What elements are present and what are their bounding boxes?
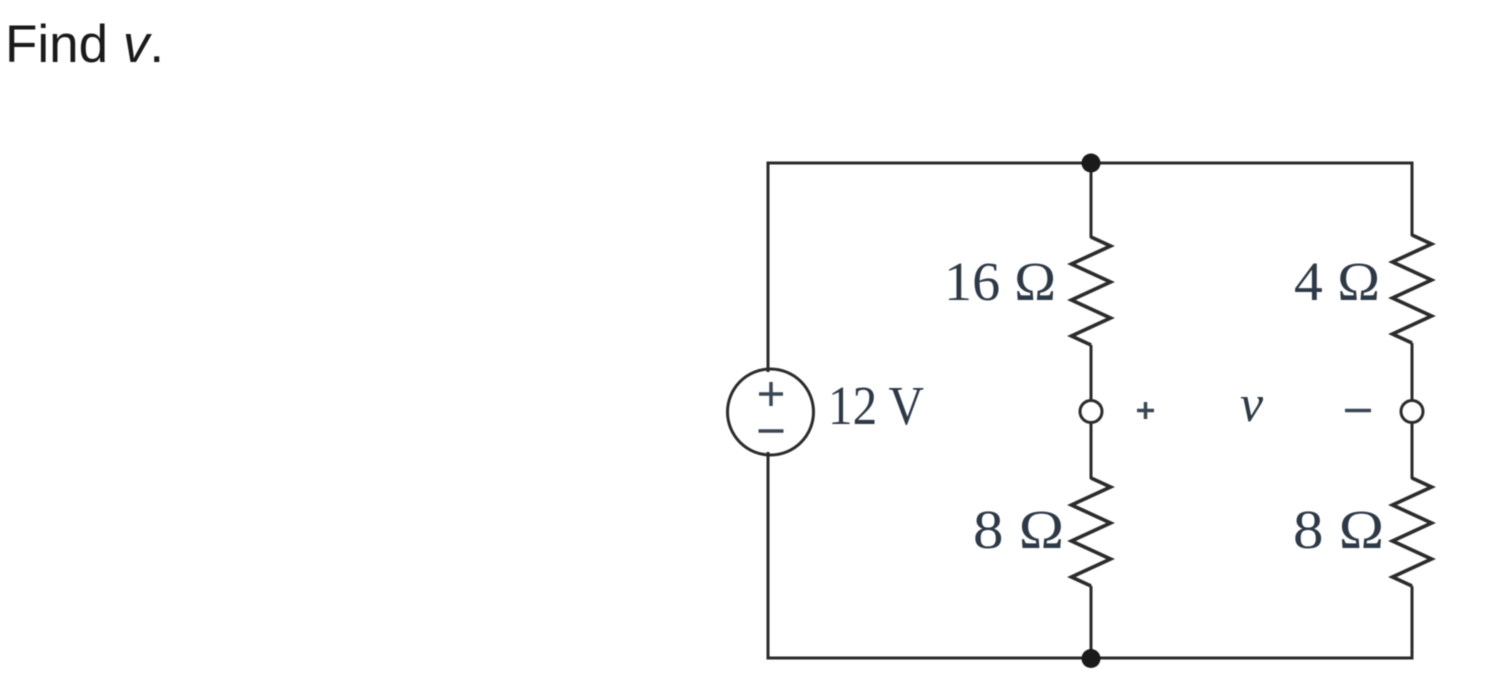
wire: middle branch bottom segment bbox=[1090, 586, 1093, 658]
node: top junction dot bbox=[1082, 154, 1101, 173]
label plus sign of v bbox=[1137, 402, 1154, 419]
wire: bottom horizontal from left corner to right corner bbox=[768, 657, 1412, 660]
voltage source V1 circle bbox=[728, 369, 814, 455]
wire: right branch bottom segment bbox=[1411, 586, 1414, 660]
wire: right branch between 4 ohm and terminal bbox=[1411, 343, 1414, 400]
svg-text:8 Ω: 8 Ω bbox=[1293, 500, 1384, 561]
svg-text:12 V: 12 V bbox=[828, 376, 924, 437]
wire: right branch between terminal and 8 ohm bbox=[1411, 423, 1414, 479]
svg-text:Find v.: Find v. bbox=[5, 15, 164, 74]
svg-text:16 Ω: 16 Ω bbox=[944, 252, 1056, 313]
voltage source minus sign bbox=[759, 429, 784, 433]
title text "Find v." bbox=[5, 15, 164, 74]
svg-text:v: v bbox=[1240, 376, 1264, 433]
resistor 8 ohm (right) zigzag bbox=[1393, 478, 1432, 586]
resistor 8 ohm (middle) zigzag bbox=[1072, 478, 1111, 586]
value label 8 ohm (middle) bbox=[973, 500, 1064, 561]
wire: left vertical above source bbox=[767, 162, 770, 373]
node: right open terminal bbox=[1401, 401, 1423, 423]
label v (voltage across) bbox=[1240, 376, 1264, 433]
resistor 16 ohm zigzag bbox=[1072, 237, 1111, 345]
svg-text:8 Ω: 8 Ω bbox=[973, 500, 1064, 561]
label minus sign of v bbox=[1345, 409, 1371, 413]
node: bottom junction dot bbox=[1082, 649, 1101, 668]
svg-text:4 Ω: 4 Ω bbox=[1294, 252, 1380, 313]
wire: middle branch top segment bbox=[1090, 163, 1093, 238]
value label 8 ohm (right) bbox=[1293, 500, 1384, 561]
wire: middle branch between terminal and 8 ohm bbox=[1090, 423, 1093, 479]
wire: left vertical below source bbox=[767, 452, 770, 660]
value label 4 ohm bbox=[1294, 252, 1380, 313]
node: middle open terminal bbox=[1080, 401, 1102, 423]
resistor 4 ohm zigzag bbox=[1393, 235, 1432, 343]
voltage source plus sign bbox=[759, 382, 783, 406]
value label 16 ohm bbox=[944, 252, 1056, 313]
wire: middle branch between 16 ohm and terminal bbox=[1090, 345, 1093, 400]
wire: right branch top segment bbox=[1411, 162, 1414, 237]
wire: top horizontal from left corner to right corner bbox=[768, 162, 1412, 165]
value label 12 V bbox=[828, 376, 924, 437]
